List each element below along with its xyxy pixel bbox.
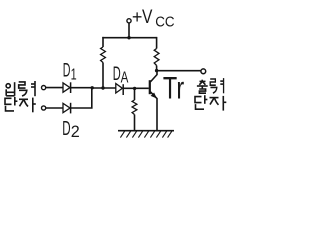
- svg-text:D: D: [62, 116, 70, 139]
- wire DA to base: [123, 87, 149, 89]
- wire left branch upper: [102, 37, 104, 47]
- input terminal 2 circle: [42, 106, 46, 110]
- Vcc terminal circle: [127, 19, 131, 23]
- wire D2 riser: [71, 88, 92, 108]
- glyph 출: [197, 80, 208, 94]
- transistor Q1 collector lead: [150, 71, 157, 82]
- svg-text:Tr: Tr: [163, 70, 184, 105]
- glyph 자 (second): [210, 96, 227, 111]
- wire rail to DA: [92, 87, 116, 89]
- svg-text:CC: CC: [155, 13, 174, 30]
- glyph 단: [5, 97, 17, 111]
- label output terminal (Korean 출력 단자): [195, 78, 226, 111]
- node Vcc junction: [127, 36, 130, 39]
- wire down to R3: [134, 88, 136, 100]
- glyph 단 (second): [195, 95, 207, 109]
- svg-text:D: D: [113, 64, 121, 85]
- svg-text:D: D: [63, 60, 71, 81]
- transistor Q1 emitter arrow: [151, 93, 157, 99]
- resistor R2 (collector load): [154, 49, 159, 66]
- input terminal 1 circle: [42, 86, 46, 90]
- label D2: [62, 116, 80, 140]
- label D1: [63, 60, 77, 83]
- wire output: [157, 70, 201, 72]
- wire left branch lower: [102, 63, 104, 89]
- transistor Q1 emitter lead: [150, 92, 157, 131]
- svg-text:+: +: [132, 7, 143, 27]
- glyph 자: [19, 98, 36, 113]
- wire Vcc stem: [128, 23, 130, 38]
- output terminal circle: [201, 69, 206, 74]
- wire input 2: [46, 107, 63, 109]
- svg-text:1: 1: [71, 66, 77, 84]
- glyph 입: [6, 82, 15, 96]
- diode D1: [63, 82, 71, 93]
- wire right branch upper: [156, 37, 158, 49]
- transistor Q1 base bar: [149, 80, 151, 94]
- resistor R1 (left pull-up): [101, 47, 106, 63]
- glyph 력: [19, 81, 35, 96]
- ground bar: [118, 130, 174, 132]
- diode DA: [116, 84, 123, 96]
- node collector junction: [155, 69, 158, 72]
- svg-text:2: 2: [71, 123, 80, 141]
- node D1-D2 junction: [91, 86, 94, 89]
- label DA: [113, 64, 129, 86]
- wire D1 to junction: [71, 87, 93, 89]
- glyph 력 (second): [210, 78, 223, 93]
- node rail-R1 junction: [101, 86, 104, 89]
- wire R3 to ground: [134, 115, 136, 131]
- node base-resistor junction: [133, 87, 136, 90]
- wire input 1: [46, 87, 63, 89]
- wire top bus: [102, 37, 156, 39]
- ground hatching: [120, 131, 171, 137]
- label input terminal (Korean 입력 단자): [5, 81, 36, 112]
- svg-text:V: V: [142, 5, 153, 27]
- wire right branch lower: [156, 66, 158, 71]
- resistor R3 (base to ground): [132, 100, 137, 115]
- svg-text:A: A: [121, 69, 129, 86]
- diode D2: [63, 103, 71, 114]
- label +VCC: [132, 5, 175, 30]
